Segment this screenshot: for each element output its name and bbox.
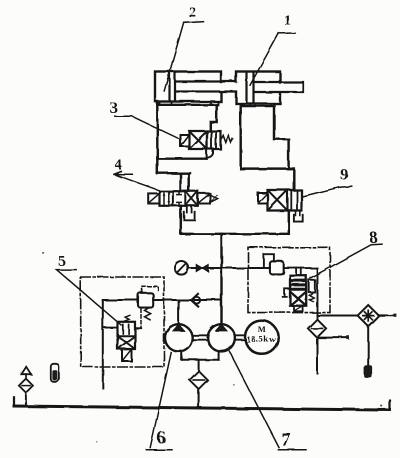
left manifold top line xyxy=(157,104,216,106)
label 4 leader with arrow xyxy=(114,171,159,190)
valve V3 spring xyxy=(221,136,233,143)
relief valve 8 adjuster xyxy=(309,280,315,292)
label 2 leader xyxy=(164,21,203,91)
valve V9 X position xyxy=(268,191,287,210)
wire: bottom manifold line joining V4 and V9 xyxy=(181,233,289,235)
air breather diamond xyxy=(19,379,33,393)
valve V3 drain boot xyxy=(207,149,213,159)
check valve ball xyxy=(193,297,200,304)
valve V4 position 3 X xyxy=(186,192,197,205)
pump P7 circle xyxy=(208,324,235,351)
wire: pump P6 line into unit 5 xyxy=(103,299,138,301)
right manifold top line xyxy=(241,105,274,107)
relief valve 5 top spring mark xyxy=(124,315,129,321)
thermometer fill xyxy=(52,370,57,380)
air breather triangle xyxy=(22,367,32,374)
shaft between pumps xyxy=(192,335,207,339)
wire: suction drop to filter F1 xyxy=(198,360,200,371)
right manifold right edge with step xyxy=(274,106,289,169)
relief valve 5 upper ports xyxy=(123,325,129,334)
rod wall gaps xyxy=(219,83,223,91)
wire: drop to valve V4 port B xyxy=(187,173,189,191)
svg-text:2: 2 xyxy=(188,5,196,21)
right manifold left edge xyxy=(239,106,241,169)
valve V9 tank symbol xyxy=(294,215,303,222)
right manifold bottom line xyxy=(241,167,294,169)
pump P6 suction stub xyxy=(181,351,183,360)
cylinder C1 piston xyxy=(247,72,254,103)
suction header line xyxy=(182,359,219,361)
wire: valve V4 pressure line down xyxy=(180,206,182,234)
svg-text:8: 8 xyxy=(369,228,378,247)
wire: drain drop through unit 8 to filter F2 xyxy=(316,268,318,319)
wire: cooler drain down xyxy=(367,326,369,366)
svg-text:6: 6 xyxy=(157,428,166,448)
valve V4 tank port stubs xyxy=(187,206,192,213)
tank line right tick xyxy=(389,401,391,410)
dashed pilot line to valve 5 xyxy=(140,309,142,328)
relief valve 8 bottom box xyxy=(294,306,303,312)
valve V9 body xyxy=(268,190,302,211)
wire: pump P6 output line xyxy=(153,299,221,301)
wire: valve 5 left stub xyxy=(103,327,118,329)
scan speckles xyxy=(42,252,382,443)
right manifold mounting stubs xyxy=(242,104,272,107)
label 1 leader xyxy=(250,33,295,85)
relief valve 5 body xyxy=(118,322,136,349)
valve V4 center position blocked ports xyxy=(177,191,181,206)
wire: drop to valve V9 top port xyxy=(293,169,295,190)
svg-text:3: 3 xyxy=(110,100,118,117)
tank line xyxy=(14,406,390,410)
wire: valve 5 right stub xyxy=(135,327,141,329)
pump P7 suction stub xyxy=(218,351,220,359)
wire: filter F2 down xyxy=(316,338,318,373)
svg-text:18.5kw: 18.5kw xyxy=(246,334,276,344)
suction filter F1 diamond xyxy=(190,371,208,389)
wire: pump P6 riser xyxy=(178,300,180,325)
valve V9 tank port stubs xyxy=(296,211,300,216)
relief valve 8 top stubs xyxy=(297,268,302,276)
valve V3 position square with X xyxy=(189,131,207,149)
pump P6 circle xyxy=(165,324,192,351)
pressure gauge xyxy=(175,261,189,275)
check valve seat xyxy=(191,294,198,307)
label 3 leader xyxy=(115,116,178,138)
wire: breather to tank xyxy=(25,393,27,407)
valve V3 position square with through lines xyxy=(207,131,221,149)
svg-text:M: M xyxy=(258,324,266,334)
valve V4 body (3 positions) xyxy=(160,191,198,206)
relief valve 8 body xyxy=(290,276,306,306)
svg-text:7: 7 xyxy=(281,429,291,450)
cooler diamond xyxy=(358,305,379,326)
left manifold mounting stubs xyxy=(160,102,219,105)
shaft pump to motor xyxy=(235,335,245,339)
unit 8 enclosure (dash-dot box) xyxy=(248,247,330,312)
svg-text:5: 5 xyxy=(58,253,66,269)
svg-text:4: 4 xyxy=(115,157,123,173)
relief valve 8 X xyxy=(291,292,306,305)
svg-text:1: 1 xyxy=(284,13,292,29)
valve V3 solenoid box xyxy=(180,135,189,147)
gauge shutoff valve (bowtie) xyxy=(196,264,202,271)
wire: valve V9 line down xyxy=(288,211,290,234)
cylinder C2 body xyxy=(155,72,221,102)
tank line left tick xyxy=(13,397,15,406)
wire: unit 8 internal line right xyxy=(284,267,317,269)
air breather stem xyxy=(25,374,27,378)
valve V4 right solenoid xyxy=(198,193,210,203)
valve V4 position 1 flow arrows xyxy=(164,193,169,205)
wire: line to cooler xyxy=(317,315,358,317)
wire: filter F1 to tank xyxy=(198,389,200,408)
label 5 leader xyxy=(57,270,122,325)
relief valve 8 internal bars xyxy=(292,281,305,290)
wire: valve V3 outlet line xyxy=(157,157,206,159)
spring under pilot head xyxy=(145,308,151,320)
thermometer body xyxy=(51,364,59,382)
wire: C2 left port down xyxy=(156,102,158,174)
cylinder C2 piston rod xyxy=(176,82,236,92)
wire: manifold right edge down to valve V3 xyxy=(210,105,216,131)
valve V4 right flag xyxy=(210,195,218,203)
cylinder C2 piston xyxy=(170,72,176,101)
valve V9 solenoid box xyxy=(258,193,268,204)
wire: cooler line right xyxy=(379,314,395,316)
cylinder C1 piston rod xyxy=(255,82,304,92)
pilot head of relief valve 5 xyxy=(138,293,153,308)
relief valve 5 X xyxy=(118,337,134,349)
pump P7 outlet triangle xyxy=(216,324,227,331)
unit 5 enclosure (dash-dot box) xyxy=(81,277,164,367)
wire: lower manifold line to valve V4 xyxy=(157,172,190,174)
svg-text:9: 9 xyxy=(340,167,348,184)
pilot dashed link above xyxy=(142,286,158,292)
pilot loop of unit 8 xyxy=(264,254,274,268)
relief valve 8 left drain xyxy=(283,289,290,297)
wire: drop to valve V4 port A xyxy=(179,173,181,191)
valve V9 through lines xyxy=(291,190,297,210)
drain plug xyxy=(365,366,372,378)
label 9 leader xyxy=(301,186,352,197)
cylinder C1 body xyxy=(236,72,280,104)
motor M circle xyxy=(245,321,278,354)
valve V4 left solenoid xyxy=(148,193,159,203)
pilot head of relief valve 8 xyxy=(270,261,284,274)
relief valve 8 spring xyxy=(309,293,313,301)
wire: main pressure line down to pump P7 xyxy=(220,234,222,325)
valve 5 drain box xyxy=(122,349,132,361)
wire: unit 5 drain line down xyxy=(102,300,104,388)
valve V4 tank symbol xyxy=(184,212,195,220)
wire: branch right with end tick xyxy=(317,337,348,339)
wire: gauge line to main line and unit 8 xyxy=(188,267,270,269)
label 7 leader xyxy=(229,351,306,450)
label 8 leader xyxy=(311,244,382,278)
label 6 leader xyxy=(147,353,173,450)
return filter F2 diamond xyxy=(308,319,326,337)
cooler internal star xyxy=(363,310,374,321)
pump P6 outlet triangle xyxy=(173,324,184,331)
